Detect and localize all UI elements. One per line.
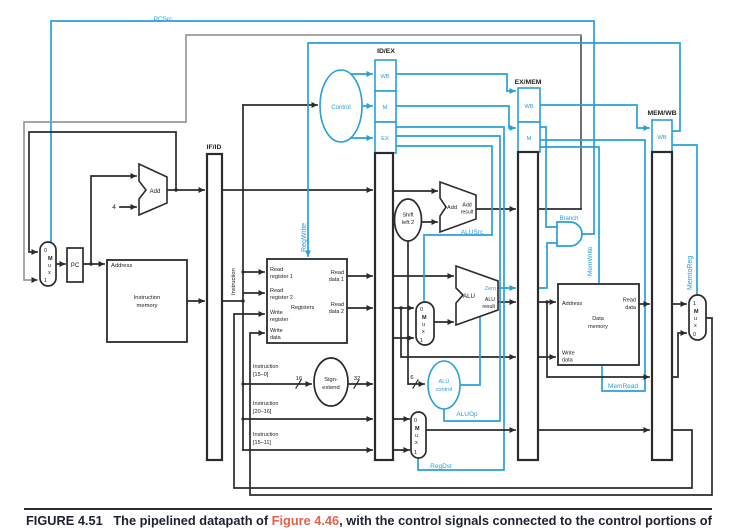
svg-text:u: u (422, 322, 425, 328)
svg-text:Add: Add (150, 189, 161, 195)
svg-text:Write: Write (562, 351, 575, 357)
svg-text:0: 0 (693, 332, 696, 338)
svg-text:ALU: ALU (485, 297, 495, 303)
svg-text:0: 0 (420, 307, 423, 313)
mux ALUSrc (416, 302, 434, 345)
wire data memory Read data to MEM/WB (639, 303, 649, 305)
wire Control to ID/EX WB (350, 73, 372, 75)
svg-text:ID/EX: ID/EX (377, 48, 395, 55)
svg-text:data: data (562, 358, 574, 364)
svg-text:memory: memory (137, 303, 158, 309)
svg-text:ALU: ALU (439, 379, 450, 385)
svg-text:[15–0]: [15–0] (253, 372, 269, 378)
svg-text:ALU: ALU (463, 293, 475, 300)
svg-text:Instruction: Instruction (134, 295, 161, 301)
sign extend (314, 358, 348, 406)
wire immediate vertical (shift left 2 / ALU control tap) (408, 241, 424, 384)
and gate Branch (557, 222, 582, 246)
wire Read data 1 to ID/EX (347, 275, 372, 277)
wire Zero to AND gate (blue) (538, 243, 557, 288)
svg-text:Address: Address (562, 301, 582, 307)
wire ALU result to EX/MEM (498, 301, 515, 303)
svg-text:Branch: Branch (559, 216, 578, 222)
wire ID/EX immediate to ALUSrc mux (393, 337, 413, 339)
svg-text:M: M (415, 426, 420, 432)
node junction immediate (406, 336, 409, 339)
svg-text:u: u (694, 316, 697, 322)
data memory (558, 284, 639, 365)
svg-text:EX/MEM: EX/MEM (515, 79, 542, 86)
alu ALU (456, 266, 498, 325)
wire instruction [15-0] to sign-extend (243, 383, 311, 385)
wire ID/EX [15-11] to RegDst mux (393, 449, 409, 451)
svg-text:1: 1 (420, 338, 423, 344)
svg-text:left 2: left 2 (402, 220, 414, 226)
svg-text:RegWrite: RegWrite (301, 223, 308, 252)
svg-text:RegDst: RegDst (430, 463, 452, 470)
svg-text:6: 6 (410, 375, 413, 381)
alu control (blue ellipse) (428, 361, 460, 409)
svg-text:1: 1 (693, 301, 696, 307)
wire ID/EX PC+4 to branch Add (393, 190, 437, 192)
svg-text:u: u (415, 433, 418, 439)
wire instruction bus vertical (242, 105, 244, 450)
svg-text:register 2: register 2 (270, 295, 293, 301)
node junction bus taps (241, 270, 244, 273)
node junction PC+4 (174, 188, 177, 191)
svg-text:Sign-: Sign- (324, 377, 338, 383)
svg-text:Read: Read (331, 302, 344, 308)
svg-text:data: data (625, 305, 637, 311)
svg-text:x: x (415, 440, 418, 446)
svg-text:x: x (694, 323, 697, 329)
wire PCSrc (blue, AND output to PC mux select) (51, 21, 594, 241)
svg-text:Add: Add (462, 203, 471, 209)
wire instruction to Read register 2 (243, 292, 264, 294)
wire branch Add result to EX/MEM (476, 208, 515, 210)
wire ID/EX read data 2 to ALUSrc mux (393, 307, 413, 309)
svg-text:[15–11]: [15–11] (253, 440, 271, 446)
svg-text:1: 1 (44, 278, 47, 284)
svg-text:Instruction: Instruction (253, 432, 278, 438)
wire MemWrite (blue) (540, 147, 599, 282)
wire read data 2 to EX/MEM (write data) (401, 308, 515, 357)
svg-text:Read: Read (331, 270, 344, 276)
wire PC mux to PC (56, 263, 65, 265)
wire Add output to IF/ID (167, 189, 204, 191)
svg-text:Instruction: Instruction (253, 401, 278, 407)
svg-text:Data: Data (592, 316, 605, 322)
wire MemtoReg (blue) (672, 145, 697, 294)
svg-text:Address: Address (111, 263, 132, 269)
wire MEM/WB ALU result to final mux (672, 333, 686, 377)
wire ALU Zero to EX/MEM (blue) (498, 287, 515, 289)
svg-text:Instruction: Instruction (231, 268, 237, 295)
wire Branch to AND gate (blue) (540, 127, 557, 227)
wire Control to ID/EX M (362, 105, 372, 107)
wire PC+4 loopback to PC mux input 0 (29, 132, 176, 252)
svg-text:Write: Write (270, 328, 283, 334)
svg-text:Add: Add (447, 205, 457, 211)
svg-text:32: 32 (354, 376, 360, 382)
svg-text:ALUSrc: ALUSrc (461, 229, 484, 236)
wire Control to ID/EX EX (350, 137, 372, 139)
caption text (26, 514, 744, 527)
svg-text:Instruction: Instruction (253, 364, 278, 370)
node junction instruction (241, 299, 244, 302)
svg-text:M: M (694, 309, 699, 315)
wire ID/EX M to EX/MEM M (blue) (396, 106, 515, 128)
pipeline register IF/ID (207, 154, 222, 460)
svg-text:0: 0 (414, 418, 417, 424)
wire ALUSrc (blue) (396, 146, 492, 300)
svg-text:Registers: Registers (291, 305, 314, 311)
wire ID/EX read data 1 to ALU (393, 275, 453, 277)
control unit Control (blue ellipse) (320, 70, 362, 142)
wire final mux output to Write data (250, 318, 712, 495)
svg-text:u: u (48, 263, 51, 269)
shifter Shift left 2 (395, 199, 422, 241)
svg-text:Read: Read (270, 288, 283, 294)
adder branch Add (440, 182, 476, 232)
svg-text:Write: Write (270, 310, 283, 316)
svg-text:MemWrite: MemWrite (587, 246, 594, 276)
svg-text:extend: extend (322, 385, 339, 391)
wire constant 4 to Add (120, 206, 136, 208)
wire ALUSrc mux to ALU (434, 321, 453, 323)
svg-text:data 1: data 1 (329, 277, 344, 283)
wire MEM/WB read data to final mux (672, 303, 686, 305)
svg-text:MemRead: MemRead (608, 383, 638, 390)
node junction PC out (89, 262, 92, 265)
adder Add (PC+4) (139, 164, 167, 215)
wire register number EX/MEM to MEM/WB (538, 429, 649, 431)
wire instruction [15-11] to ID/EX (243, 449, 372, 451)
wire MemRead (blue) (540, 140, 645, 391)
caption rule (24, 508, 712, 510)
svg-text:WB: WB (657, 135, 666, 141)
svg-text:16: 16 (296, 376, 302, 382)
svg-text:data: data (270, 335, 282, 341)
mux final (1/0) (689, 295, 706, 340)
wire IF/ID instruction output (222, 300, 243, 302)
svg-text:x: x (422, 329, 425, 335)
svg-text:M: M (422, 315, 427, 321)
svg-text:Control: Control (331, 105, 350, 111)
wire RegDst (blue) (396, 127, 504, 470)
svg-text:1: 1 (414, 450, 417, 456)
svg-text:Read: Read (270, 267, 283, 273)
node junction ALU result (545, 300, 548, 303)
wire RegDst mux output through EX/MEM (426, 429, 515, 431)
svg-text:PCSrc: PCSrc (154, 16, 174, 23)
svg-text:register: register (270, 317, 289, 323)
svg-text:EX: EX (381, 136, 389, 142)
svg-text:M: M (48, 256, 53, 262)
svg-text:0: 0 (44, 248, 47, 254)
svg-text:x: x (48, 270, 51, 276)
register PC (67, 248, 83, 282)
svg-text:Shift: Shift (402, 213, 414, 219)
mux PC (0/1) (40, 242, 56, 286)
wire RegWrite (blue, MEM/WB WB box around top to Registers) (308, 43, 680, 256)
svg-text:memory: memory (588, 324, 608, 330)
wire PC to Add input (91, 176, 136, 264)
wire shift left 2 to branch Add (421, 221, 437, 223)
svg-text:4: 4 (112, 204, 116, 211)
svg-text:M: M (383, 105, 388, 111)
wire branch target gray loop (EX/MEM Add result to PC mux input 1) (580, 35, 582, 209)
wire EX/MEM write data to data memory (538, 356, 555, 358)
wire ID/EX WB to EX/MEM WB (blue) (396, 74, 515, 91)
wire instruction memory to IF/ID (187, 300, 204, 302)
svg-text:WB: WB (524, 104, 533, 110)
wire ID/EX [20-16] to RegDst mux (393, 418, 409, 420)
svg-text:Zero: Zero (485, 286, 496, 292)
svg-text:result: result (482, 304, 495, 310)
svg-text:register 1: register 1 (270, 274, 293, 280)
wire instruction to Read register 1 (243, 271, 264, 273)
svg-text:data 2: data 2 (329, 309, 344, 315)
wire instruction to Control (243, 104, 317, 106)
wire IF/ID PC+4 to ID/EX (222, 189, 372, 191)
svg-text:MemtoReg: MemtoReg (687, 256, 694, 290)
node junction read data 2 (399, 306, 402, 309)
svg-text:control: control (436, 387, 453, 393)
wire Read data 2 to ID/EX (347, 307, 372, 309)
wire register number feedback to Write register (234, 314, 692, 488)
wire ALU result bypass to MEM/WB (547, 302, 649, 377)
wire instruction [20-16] to ID/EX (243, 418, 372, 420)
svg-text:Read: Read (623, 298, 636, 304)
svg-text:[20–16]: [20–16] (253, 409, 272, 415)
svg-text:ALUOp: ALUOp (456, 411, 478, 418)
svg-text:PC: PC (71, 262, 80, 269)
svg-text:MEM/WB: MEM/WB (647, 110, 676, 117)
registers file (267, 259, 347, 343)
instruction memory (107, 260, 187, 342)
svg-text:result: result (461, 210, 474, 216)
wire EX/MEM Add result out (538, 208, 581, 210)
wire EX/MEM WB to MEM/WB WB (blue) (540, 105, 649, 128)
wire EX/MEM ALU result to data memory Address (538, 301, 555, 303)
wire sign-extend to ID/EX (348, 383, 372, 385)
wire ALUOp (blue) (396, 136, 500, 421)
svg-text:IF/ID: IF/ID (207, 144, 222, 151)
svg-text:WB: WB (380, 74, 389, 80)
wire PC to instruction memory Address (83, 263, 104, 265)
svg-text:M: M (527, 136, 532, 142)
mux RegDst (411, 412, 426, 458)
wire ALU control to ALU (blue) (460, 317, 480, 385)
